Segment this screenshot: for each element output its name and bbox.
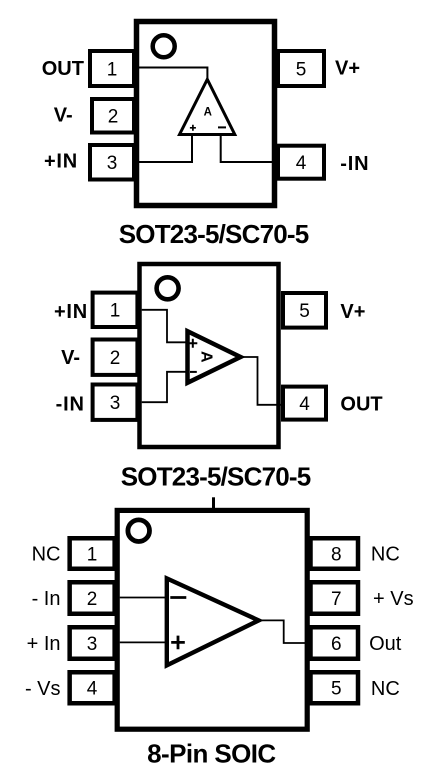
svg-text:OUT: OUT (340, 393, 382, 415)
svg-text:- Vs: - Vs (25, 678, 61, 700)
svg-text:1: 1 (110, 301, 121, 322)
svg-text:+IN: +IN (54, 301, 88, 323)
pin 4 box (70, 672, 115, 703)
pin 3 box (93, 385, 138, 420)
svg-text:2: 2 (110, 348, 121, 369)
pin 6 box (311, 627, 359, 659)
svg-text:V-: V- (61, 347, 80, 369)
pin 2 box (93, 340, 138, 375)
svg-text:4: 4 (299, 394, 310, 415)
pin 5 box (278, 51, 324, 86)
svg-text:7: 7 (331, 589, 342, 610)
svg-text:8: 8 (331, 544, 342, 565)
pin-1 indicator dot U3 (128, 520, 150, 542)
svg-text:4: 4 (296, 153, 307, 174)
svg-text:A: A (204, 107, 212, 119)
wire pin3 to op-amp + input (120, 641, 165, 643)
wire pin3 to op-amp + input (136, 135, 192, 162)
pin 1 box (90, 51, 134, 86)
svg-text:3: 3 (110, 393, 121, 414)
svg-text:2: 2 (87, 589, 98, 610)
svg-text:V-: V- (54, 104, 73, 126)
IC package body U1 (137, 22, 275, 206)
svg-text:+ Vs: + Vs (373, 588, 414, 610)
op-amp + input mark (188, 339, 197, 348)
wire pin1 to op-amp output (136, 68, 207, 83)
svg-text:V+: V+ (340, 301, 365, 323)
svg-text:5: 5 (299, 301, 310, 322)
svg-text:SOT23-5/SC70-5: SOT23-5/SC70-5 (121, 462, 311, 492)
svg-text:1: 1 (87, 544, 98, 565)
svg-text:A: A (197, 351, 214, 363)
op-amp + input mark (171, 636, 185, 650)
svg-text:OUT: OUT (42, 58, 84, 80)
svg-text:NC: NC (371, 544, 400, 566)
op-amp + input mark (190, 125, 196, 131)
svg-text:5: 5 (331, 679, 342, 700)
svg-text:NC: NC (371, 678, 400, 700)
svg-text:Out: Out (369, 633, 402, 655)
pin 5 box (311, 672, 359, 703)
svg-text:1: 1 (107, 59, 118, 80)
op-amp A (pointing right) (167, 578, 259, 665)
pin 2 box (70, 582, 115, 614)
svg-text:3: 3 (107, 153, 118, 174)
pin-1 indicator dot U1 (153, 35, 175, 57)
wire op-amp - input to pin4 (221, 135, 278, 162)
pin 7 box (311, 582, 359, 614)
svg-text:- In: - In (32, 588, 61, 610)
pin 2 box (92, 99, 134, 133)
svg-text:-IN: -IN (56, 393, 85, 415)
wire pin3 to op-amp - input (142, 372, 186, 402)
op-amp A (pointing right) (188, 331, 241, 383)
wire op-amp output to pin4 (243, 357, 281, 405)
wire pin1 to op-amp + input (142, 310, 186, 343)
svg-text:6: 6 (331, 634, 342, 655)
pin 1 box (70, 538, 115, 569)
svg-text:-IN: -IN (340, 153, 369, 175)
op-amp - input mark (170, 596, 186, 599)
top tick mark (212, 497, 215, 510)
svg-text:+ In: + In (27, 633, 61, 655)
IC package body U3 (117, 510, 307, 729)
svg-text:8-Pin SOIC: 8-Pin SOIC (147, 739, 276, 769)
wire op-amp output to pin6 (262, 620, 306, 643)
svg-text:3: 3 (87, 634, 98, 655)
pin 8 box (311, 538, 359, 569)
svg-text:4: 4 (87, 679, 98, 700)
svg-text:5: 5 (296, 59, 307, 80)
svg-text:SOT23-5/SC70-5: SOT23-5/SC70-5 (119, 219, 309, 249)
pin 3 box (70, 627, 115, 659)
svg-text:V+: V+ (335, 58, 360, 80)
svg-text:NC: NC (32, 544, 61, 566)
op-amp - input mark (190, 371, 197, 373)
IC package body U2 (140, 264, 279, 447)
op-amp A (pointing up) (180, 79, 235, 134)
wire pin2 to op-amp - input (120, 597, 165, 599)
pin-1 indicator dot U2 (157, 277, 179, 299)
svg-text:+IN: +IN (44, 151, 78, 173)
pin 4 box (278, 146, 324, 179)
pin 5 box (283, 293, 326, 328)
svg-text:2: 2 (108, 107, 119, 128)
pin 3 box (90, 145, 134, 180)
pin 4 box (283, 387, 326, 420)
op-amp - input mark (218, 126, 226, 128)
pin 1 box (93, 293, 138, 327)
